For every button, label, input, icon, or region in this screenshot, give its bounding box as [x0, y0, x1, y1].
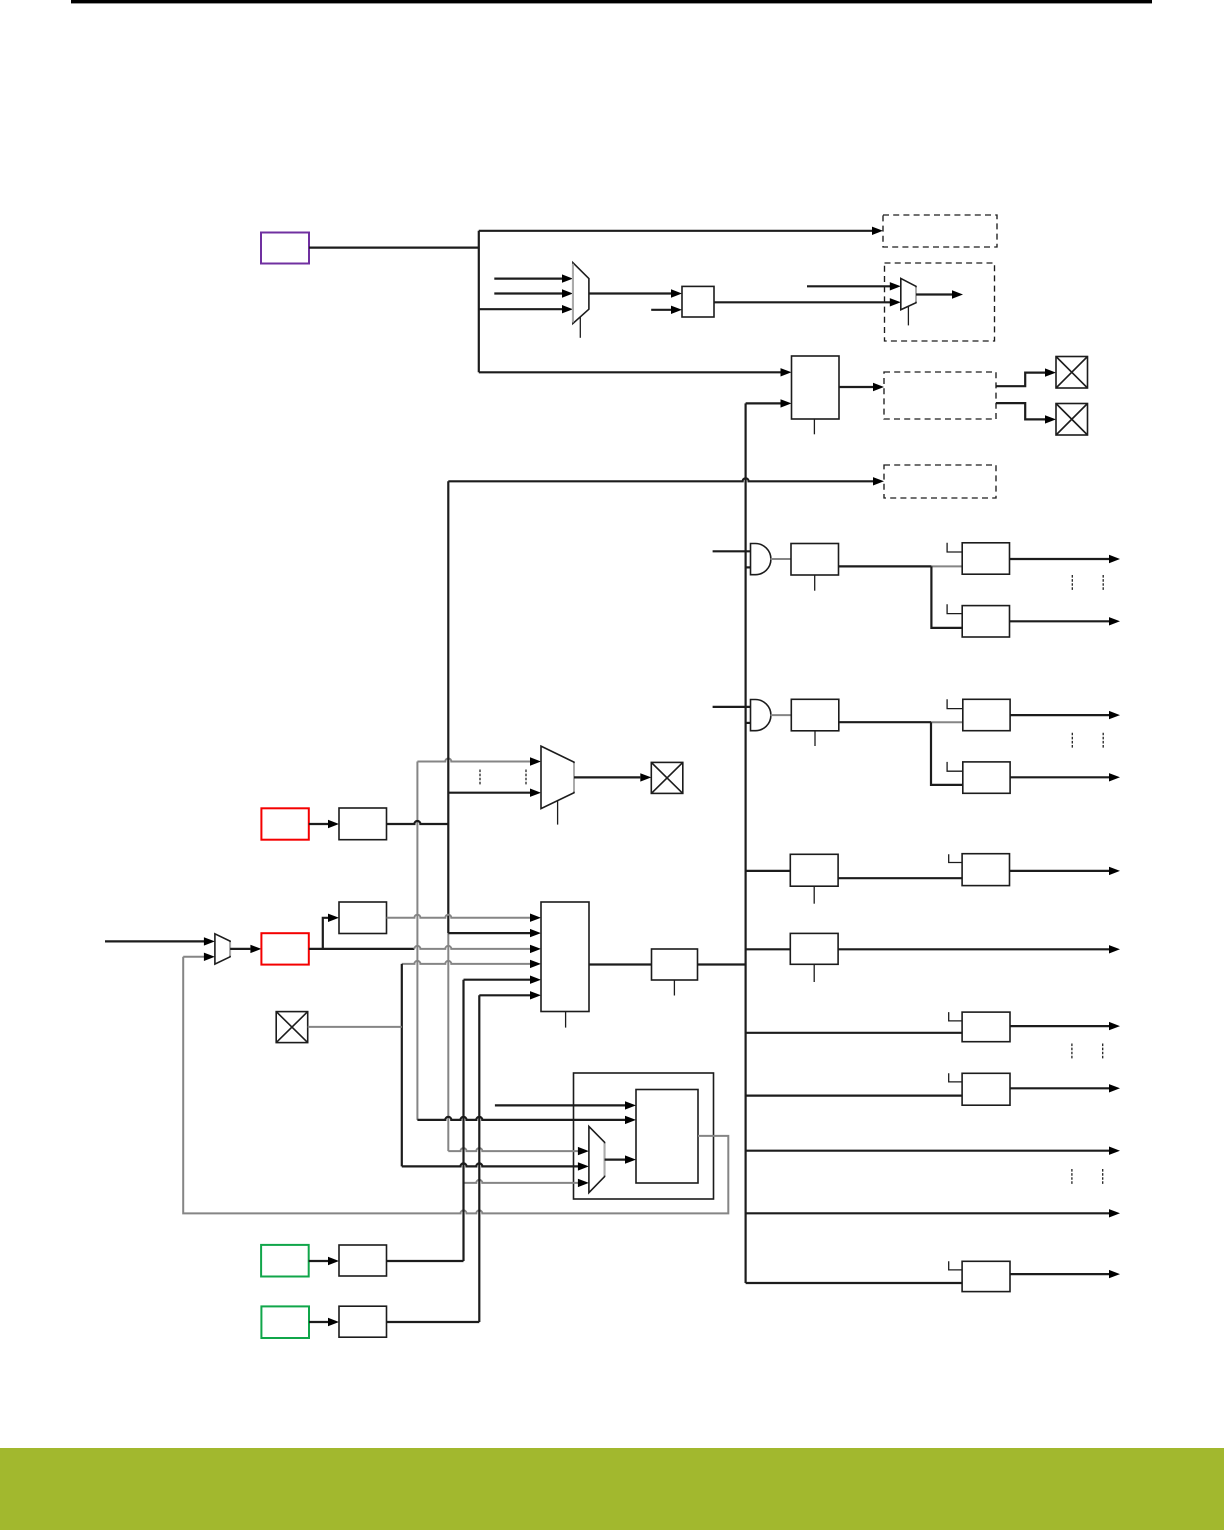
- wire G1 output: [771, 558, 792, 560]
- oscillator box OSC3 (green): [261, 1245, 309, 1277]
- mux U2 select stub: [579, 317, 581, 338]
- wire counter feedback loop (grey): [183, 957, 728, 1214]
- prescaler box A: [792, 356, 840, 419]
- wire U1 output to node V5: [309, 247, 479, 249]
- wire rail to G2: [746, 948, 791, 950]
- wire AND gate G2 input a: [713, 706, 751, 708]
- repetition dots row2: [1072, 733, 1103, 749]
- peripheral clock box C1: [962, 543, 1009, 574]
- wire F output to rail: [698, 963, 746, 965]
- peripheral clock box C3: [963, 699, 1010, 730]
- pin box X4: [276, 1012, 308, 1043]
- H2 enable stub: [949, 1012, 962, 1021]
- counter core box: [636, 1090, 698, 1184]
- wire net V1 vertical lower (grey): [447, 933, 449, 1151]
- wire V4 to selector input 6: [479, 994, 530, 996]
- wire B1 output to branch node: [839, 565, 932, 567]
- wire M5 output to F: [589, 963, 652, 965]
- wire V5 to dashed block DB1: [479, 230, 873, 232]
- wire branch down to C2: [931, 566, 962, 628]
- wire rail long output row7: [746, 1150, 1109, 1152]
- counter mux M6: [589, 1126, 605, 1192]
- wire H1 output: [1010, 870, 1110, 872]
- prescaler box G2: [790, 933, 838, 964]
- dashed block DB2: [885, 263, 995, 341]
- wire mux M3 input 1 (grey, hop over V1): [417, 759, 530, 762]
- wire net V3 vertical: [462, 980, 464, 1261]
- oscillator box OSC2 (red): [261, 933, 308, 964]
- wire branch to C1: [931, 565, 962, 567]
- peripheral clock box H4: [962, 1261, 1010, 1291]
- wire mux M3 input 2 from V1: [448, 792, 530, 794]
- prescaler box G1: [790, 854, 838, 886]
- mux U4 select stub: [907, 307, 909, 326]
- mux U2: [573, 263, 589, 324]
- wire net V1 vertical upper (black): [447, 481, 449, 933]
- wire OSC3 to D2: [309, 1260, 328, 1262]
- counter container box: [574, 1073, 714, 1199]
- prescaler A select stub: [813, 419, 815, 434]
- wire rail to prescaler A input 2: [746, 402, 781, 404]
- repetition dots row5: [1072, 1044, 1103, 1060]
- wire H4 output: [1010, 1273, 1109, 1275]
- wire rail to H3: [746, 1094, 963, 1096]
- wire DB3 to X2: [996, 403, 1045, 419]
- wire G1 output to H1: [838, 877, 962, 879]
- wire C3 output: [1010, 714, 1109, 716]
- wire G2 output: [771, 714, 792, 716]
- wire M6 output to counter core: [605, 1158, 625, 1160]
- wire OSC4 to D3: [309, 1321, 328, 1323]
- wire external clock input: [105, 940, 204, 942]
- wire net V4 vertical: [478, 995, 480, 1322]
- dashed block DB1: [883, 215, 997, 247]
- mux U2 input 1: [494, 278, 562, 280]
- wire clock rail: [744, 403, 746, 1283]
- wire H2 output: [1010, 1025, 1109, 1027]
- F select stub: [673, 980, 675, 996]
- mux U2 input 2: [494, 292, 562, 294]
- wire net V2 vertical: [401, 964, 403, 1167]
- wire net HFRCO to dashed block DB4 (hop over rail): [448, 478, 873, 481]
- wire rail to H4: [746, 1282, 963, 1284]
- G1 select stub: [813, 886, 815, 904]
- wire feedback into mux M4 (grey): [183, 956, 204, 958]
- C3 enable stub: [947, 699, 963, 708]
- wire OSC2 output continuation (grey, hops over V0 and V1): [414, 946, 530, 949]
- C4 enable stub: [947, 762, 963, 771]
- wire X4 to V2 (grey): [308, 1026, 402, 1028]
- mux M4 grey edge: [229, 942, 231, 956]
- peripheral clock box C4: [963, 762, 1010, 793]
- wire branch to C3: [931, 721, 963, 723]
- mux M4: [215, 934, 230, 964]
- wire DB3 to X1: [996, 373, 1045, 387]
- wire AND gate G2 input b from rail: [746, 722, 751, 724]
- repetition dots row7: [1072, 1169, 1103, 1185]
- wire V5 to prescaler A input 1: [479, 371, 781, 373]
- wire rail to G1: [746, 870, 791, 872]
- wire D3 output to V4: [387, 1321, 480, 1323]
- oscillator box OSC1 (red): [261, 808, 308, 839]
- wire A output to dashed block DB3: [839, 386, 873, 388]
- H3 enable stub: [949, 1073, 962, 1082]
- wire V0 to counter input 2 (hops over V1 V3 V4): [417, 1117, 625, 1120]
- oscillator box U1 (purple): [261, 233, 309, 264]
- wire net V2 to selector input 4 (grey, hops over V0 and V1): [402, 961, 530, 964]
- peripheral clock box H1: [962, 854, 1009, 886]
- pin box X3: [651, 762, 683, 793]
- wire V1 to counter mux input 1 (grey, hops over V3 V4): [448, 1148, 578, 1151]
- wire V3 to counter mux input 3 (grey, hop over V4): [464, 1180, 579, 1183]
- mux M3: [541, 746, 574, 809]
- repetition dots row1: [1072, 575, 1103, 591]
- wire rail long output row8: [746, 1212, 1109, 1214]
- peripheral clock box H3: [962, 1073, 1010, 1105]
- repetition dots mux M3: [480, 770, 526, 786]
- calibration box D1: [339, 808, 387, 840]
- wire C2 output: [1010, 620, 1110, 622]
- C1 enable stub: [947, 543, 962, 552]
- wire AND gate G1 input b from rail: [746, 566, 751, 568]
- mux M6 grey edge: [604, 1143, 606, 1175]
- dashed block DB4: [884, 465, 996, 498]
- wire V1 to selector input 2: [448, 932, 530, 934]
- calibration box D3: [339, 1306, 387, 1337]
- calibration box D2: [339, 1245, 387, 1276]
- wire net V0 vertical (grey): [416, 762, 418, 1120]
- wire branch up to E1: [323, 918, 328, 949]
- selector box M5: [541, 902, 589, 1012]
- divider box U3: [682, 286, 714, 317]
- wire OSC1 to D1: [309, 823, 328, 825]
- pin box X2: [1056, 404, 1088, 436]
- oscillator box OSC4 (green): [261, 1306, 309, 1338]
- gate enable box B1: [791, 544, 839, 576]
- wire AND gate G1 input a: [713, 550, 751, 552]
- calibration box E1: [339, 902, 387, 934]
- B1 select stub: [814, 575, 816, 591]
- mux U2 input 3 from V5: [479, 308, 562, 310]
- wire C4 output: [1010, 776, 1109, 778]
- wire H3 output: [1010, 1087, 1109, 1089]
- pin box X1: [1056, 357, 1088, 389]
- wire U3 output to mux U4: [714, 301, 890, 303]
- mux U2 grey edge: [572, 264, 574, 323]
- wire G2 long output: [838, 948, 1109, 950]
- H1 enable stub: [949, 854, 962, 862]
- mux U4 grey edge: [915, 287, 917, 301]
- bottom footer band: [0, 1448, 1224, 1530]
- wire OSC2 output (black segment): [309, 948, 415, 950]
- wire branch down to C4: [931, 722, 963, 785]
- wire M4 output to OSC2: [230, 948, 250, 950]
- dashed block DB3: [884, 372, 996, 419]
- wire V2 to counter mux input 2 (hops over V3 V4): [402, 1163, 578, 1166]
- wire U4 output arrow: [916, 293, 952, 295]
- prescaler box F: [652, 949, 698, 980]
- G2 select stub: [813, 964, 815, 982]
- arrowhead into DB1: [872, 227, 883, 235]
- H4 enable stub: [949, 1261, 962, 1270]
- B2 select stub: [814, 731, 816, 746]
- wire C1 output: [1010, 558, 1110, 560]
- AND gate G1: [751, 544, 771, 575]
- mux M3 select stub: [557, 801, 559, 825]
- peripheral clock box H2: [962, 1012, 1010, 1042]
- wire D1 output to V1 (hop over V0): [387, 821, 449, 824]
- C2 enable stub: [947, 604, 962, 613]
- wire net V5 vertical: [478, 231, 480, 372]
- wire E1 output (grey, hops over V0 and V1): [387, 915, 531, 918]
- gate enable box B2: [791, 699, 839, 731]
- M5 select stub: [565, 1012, 567, 1028]
- wire V3 to selector input 5: [464, 979, 531, 981]
- mux M3 grey edge: [573, 763, 575, 792]
- wire D2 output to V3: [387, 1260, 464, 1262]
- peripheral clock box C2: [962, 606, 1009, 637]
- top header rule: [71, 0, 1152, 3]
- wire rail to H2: [746, 1032, 963, 1034]
- wire U2 output to U3: [589, 292, 671, 294]
- AND gate G2: [751, 700, 771, 731]
- mux U4: [901, 278, 916, 309]
- wire input to U3 lower: [651, 309, 671, 311]
- wire M3 output to X3: [574, 776, 640, 778]
- wire input to mux U4 top: [807, 285, 890, 287]
- wire B2 output to branch node: [839, 721, 931, 723]
- wire external input S0 to counter: [495, 1104, 625, 1106]
